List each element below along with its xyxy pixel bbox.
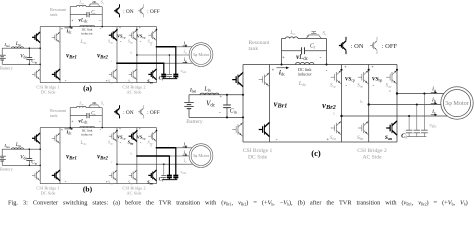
svg-text:-: - — [276, 137, 278, 143]
svg-text:Scp: Scp — [330, 83, 336, 89]
wire: bridge2 leg 3 — [156, 128, 158, 184]
transistor S_ap — [386, 76, 390, 78]
wire: phase b — [137, 54, 189, 56]
svg-text:VSbp: VSbp — [137, 135, 146, 141]
svg-text:DC Side: DC Side — [248, 154, 268, 160]
svg-text:inductor: inductor — [81, 32, 93, 36]
wire: bridge2 leg 3 — [396, 65, 398, 143]
svg-text:: OFF: : OFF — [382, 43, 398, 50]
capacitor C_in — [28, 48, 30, 57]
svg-text:VSbp: VSbp — [137, 34, 146, 40]
wire: dc top rail — [40, 26, 156, 28]
inductor L_in — [12, 148, 24, 149]
transistor bridge1 bottom-left — [32, 174, 35, 176]
inductor L_dc (DC link) — [296, 63, 314, 65]
svg-text:3φ Motor: 3φ Motor — [193, 52, 210, 57]
transistor S_bp — [129, 34, 132, 36]
svg-text:Fig. 3: Converter switching st: Fig. 3: Converter switching states: (a) … — [8, 199, 468, 206]
svg-text:+: + — [282, 56, 285, 61]
svg-text:(c): (c) — [311, 148, 321, 158]
svg-text:Scp: Scp — [108, 139, 113, 145]
svg-text:Sbn: Sbn — [357, 135, 364, 141]
svg-text:vLdc: vLdc — [78, 118, 88, 124]
wire: bridge1 left rail — [39, 128, 41, 184]
svg-text:VScp: VScp — [117, 34, 126, 40]
wire: dc top rail — [243, 64, 397, 66]
svg-text:Sr: Sr — [101, 101, 104, 107]
svg-text:b: b — [360, 99, 362, 104]
svg-text:(a): (a) — [83, 83, 92, 92]
switch S_r — [306, 38, 322, 40]
svg-text:idc: idc — [67, 28, 72, 34]
wire: dc bottom rail — [243, 141, 397, 143]
svg-text:Lin: Lin — [203, 87, 210, 93]
svg-text:Ibat: Ibat — [3, 42, 9, 48]
wire: bridge2 leg 1 — [116, 27, 118, 83]
svg-text:-: - — [219, 110, 221, 116]
svg-text:-: - — [320, 55, 322, 61]
transistor bridge1 bottom-right — [259, 129, 263, 131]
svg-text:Ldc: Ldc — [298, 80, 307, 87]
transistor S_an — [148, 73, 151, 75]
svg-text:+: + — [371, 65, 374, 70]
filter capacitors C_f — [163, 63, 165, 74]
inductor L_in — [12, 47, 24, 48]
transistor S_bn — [358, 127, 362, 129]
filter capacitors C_f — [163, 164, 165, 175]
transistor S_cp — [331, 76, 335, 78]
transistor S_ap — [148, 135, 151, 137]
wire: bridge2 leg 2 — [368, 65, 370, 143]
svg-text:Scp: Scp — [108, 38, 113, 44]
resonant tank box wires — [69, 108, 71, 128]
svg-text:inductor: inductor — [298, 71, 313, 76]
motor (3-phase) — [189, 43, 213, 67]
svg-text:Ibat: Ibat — [3, 143, 9, 149]
resonant tank box wires — [281, 39, 283, 65]
wire: phase a — [157, 46, 176, 48]
wire: bridge1 leg2 — [269, 65, 271, 143]
svg-text:San: San — [147, 180, 153, 186]
transistor bridge1 top-right — [52, 36, 55, 38]
svg-text:Battery: Battery — [186, 119, 203, 125]
wire: phase c — [117, 163, 193, 165]
svg-text:Scn: Scn — [330, 135, 336, 141]
inductor L_dc (DC link) — [80, 25, 95, 26]
switch S_r — [89, 107, 101, 109]
svg-text:Ldc: Ldc — [80, 40, 87, 45]
svg-text:b: b — [131, 152, 133, 156]
svg-text:c: c — [333, 110, 335, 115]
svg-text:+: + — [61, 128, 63, 132]
transistor S_bp — [129, 135, 132, 137]
svg-text:AC Side: AC Side — [362, 154, 382, 160]
wire: phase a — [397, 93, 444, 95]
svg-text:+: + — [272, 69, 275, 74]
wire: phase c — [117, 62, 164, 64]
transistor bridge1 bottom-right — [52, 73, 55, 75]
svg-text:Lin: Lin — [15, 143, 22, 148]
svg-text:Vdc: Vdc — [20, 154, 27, 160]
wire: phase b — [369, 104, 441, 106]
svg-text:-: - — [373, 83, 375, 89]
svg-text:: ON: : ON — [351, 43, 364, 50]
svg-text:Scn: Scn — [108, 180, 114, 186]
wire: bridge2 leg 3 — [156, 27, 158, 83]
motor (3-phase) — [441, 87, 473, 119]
svg-text:vabc: vabc — [180, 169, 187, 175]
legend ON — [119, 4, 121, 7]
transistor S_ap — [148, 34, 151, 36]
transistor S_cn — [109, 174, 112, 176]
filter capacitors C_f — [408, 116, 410, 130]
svg-text:San: San — [385, 135, 392, 141]
transistor bridge1 bottom-left — [32, 73, 35, 75]
wire: dc top rail — [40, 127, 156, 129]
svg-text:VSbp: VSbp — [372, 76, 383, 82]
svg-text:: ON: : ON — [123, 110, 134, 116]
resonant tank box wires — [69, 7, 71, 27]
svg-text:tank: tank — [249, 46, 259, 52]
svg-text:Resonant: Resonant — [249, 40, 270, 46]
svg-text:Sr: Sr — [101, 0, 104, 5]
transistor S_an — [148, 174, 151, 176]
svg-text:Sbp: Sbp — [128, 139, 134, 145]
inductor L_rr — [77, 106, 87, 107]
transistor S_cp — [109, 34, 112, 36]
transistor bridge1 top-left — [232, 79, 236, 81]
svg-text:idc: idc — [67, 129, 72, 135]
inductor L_dc (DC link) — [80, 126, 95, 127]
inductor L_in — [200, 93, 219, 95]
legend OFF — [143, 105, 145, 108]
inductor L_rr — [77, 5, 87, 6]
wire: battery bottom — [2, 63, 40, 65]
svg-text:Cin: Cin — [31, 59, 37, 64]
wire: bridge1 leg2 — [59, 27, 61, 83]
capacitor C_in — [28, 149, 30, 158]
svg-text:+: + — [61, 27, 63, 31]
svg-text:-: - — [326, 68, 328, 74]
wire: phase a — [157, 147, 176, 149]
svg-text:VScp: VScp — [117, 135, 126, 141]
wire: dc bottom rail — [40, 82, 156, 84]
transistor bridge1 top-right — [259, 79, 263, 81]
wire: battery top — [2, 148, 40, 150]
motor (3-phase) — [189, 144, 213, 168]
wire: phase c — [342, 115, 448, 117]
svg-text:+: + — [71, 119, 73, 123]
svg-text:(b): (b) — [83, 184, 93, 193]
svg-text:b: b — [131, 51, 133, 55]
wire: bridge2 leg 1 — [116, 128, 118, 184]
svg-text:vabc: vabc — [429, 123, 437, 129]
svg-text:Cr: Cr — [310, 44, 316, 50]
switch S_r — [89, 6, 101, 8]
wire: battery bottom — [2, 164, 40, 166]
transistor bridge1 bottom-left — [232, 129, 236, 131]
transistor S_cn — [331, 127, 335, 129]
svg-text:Ldc: Ldc — [80, 141, 87, 146]
svg-text:Sbn: Sbn — [128, 79, 134, 85]
capacitor C_r — [70, 14, 87, 16]
svg-text:+: + — [219, 95, 222, 100]
wire: bridge2 leg 2 — [136, 27, 138, 83]
svg-text:: OFF: : OFF — [147, 110, 160, 116]
svg-text:Scn: Scn — [108, 79, 114, 85]
svg-text:Lin: Lin — [15, 42, 22, 47]
svg-text:+: + — [71, 18, 73, 22]
svg-text:Battery: Battery — [0, 65, 14, 70]
svg-text:tank: tank — [50, 12, 58, 17]
capacitor C_in — [226, 95, 228, 106]
svg-text:Lrr: Lrr — [78, 0, 83, 5]
svg-text:: OFF: : OFF — [147, 9, 160, 15]
transistor S_bn — [129, 73, 132, 75]
transistor S_an — [386, 127, 390, 129]
transistor S_bp — [358, 76, 362, 78]
svg-text:: ON: : ON — [123, 9, 134, 15]
transistor bridge1 top-left — [32, 137, 35, 139]
svg-text:Cin: Cin — [230, 109, 237, 115]
svg-text:a: a — [389, 88, 391, 93]
svg-text:DC Side: DC Side — [40, 191, 55, 196]
svg-text:AC Side: AC Side — [126, 191, 141, 196]
svg-text:ib: ib — [183, 50, 186, 55]
svg-text:inductor: inductor — [81, 133, 93, 137]
svg-text:VScp: VScp — [345, 76, 355, 82]
wire: battery top — [189, 94, 243, 96]
legend OFF — [376, 37, 378, 41]
svg-text:Sbn: Sbn — [128, 180, 134, 186]
svg-text:vLdc: vLdc — [78, 17, 88, 23]
wire: bridge1 leg2 — [59, 128, 61, 184]
svg-text:DC Side: DC Side — [40, 90, 55, 95]
svg-text:Cin: Cin — [31, 160, 37, 165]
wire: battery top — [2, 47, 40, 49]
transistor S_cn — [109, 73, 112, 75]
svg-text:AC Side: AC Side — [126, 90, 141, 95]
svg-text:CSI Bridge 1: CSI Bridge 1 — [243, 148, 273, 154]
transistor bridge1 top-left — [32, 36, 35, 38]
svg-text:idc: idc — [279, 69, 285, 76]
svg-text:San: San — [147, 79, 153, 85]
wire: phase b — [137, 155, 170, 157]
transistor bridge1 bottom-right — [52, 174, 55, 176]
wire: bridge2 leg 2 — [136, 128, 138, 184]
transistor S_cp — [109, 135, 112, 137]
wire: bridge1 left rail — [242, 65, 244, 143]
svg-text:Lrr: Lrr — [78, 100, 83, 106]
legend ON — [119, 105, 121, 108]
svg-text:Cf: Cf — [401, 133, 407, 140]
transistor bridge1 top-right — [52, 137, 55, 139]
svg-text:3φ Motor: 3φ Motor — [445, 100, 469, 107]
svg-text:Lrr: Lrr — [289, 30, 296, 36]
svg-text:-: - — [345, 83, 347, 89]
legend OFF — [143, 4, 145, 7]
wire: bridge1 left rail — [39, 27, 41, 83]
inductor L_rr — [286, 37, 299, 39]
battery (circuit c) — [188, 95, 190, 103]
svg-text:Battery: Battery — [0, 166, 14, 171]
svg-text:Sbp: Sbp — [357, 83, 363, 89]
transistor S_bn — [129, 174, 132, 176]
wire: dc bottom rail — [40, 183, 156, 185]
svg-text:Vdc: Vdc — [20, 53, 27, 59]
battery (circuit a) — [1, 48, 3, 55]
battery (circuit b) — [1, 149, 3, 156]
svg-text:Sbp: Sbp — [128, 38, 134, 44]
svg-text:3φ Motor: 3φ Motor — [193, 153, 210, 158]
capacitor C_r — [70, 115, 87, 117]
svg-text:Ibat: Ibat — [189, 88, 196, 94]
wire: bridge2 leg 1 — [341, 65, 343, 143]
svg-text:vabc: vabc — [180, 68, 187, 74]
svg-text:+: + — [344, 65, 347, 70]
wire: battery bottom — [189, 116, 243, 118]
capacitor C_r — [282, 50, 302, 52]
legend ON — [345, 37, 347, 41]
svg-text:CSI Bridge 2: CSI Bridge 2 — [357, 148, 387, 154]
svg-text:tank: tank — [50, 113, 58, 118]
